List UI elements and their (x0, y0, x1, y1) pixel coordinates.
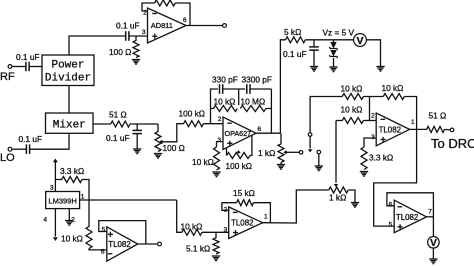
wire R9 to R10 (363, 96, 383, 98)
wire VR3 to ground (280, 163, 282, 165)
wire M1 to ground drop (366, 40, 380, 67)
label R1 value 100 ohm (109, 47, 131, 57)
wire switch right throw to ground (318, 154, 320, 166)
svg-text:TL082: TL082 (231, 218, 253, 227)
svg-text:100 kΩ: 100 kΩ (179, 109, 206, 119)
capacitor C2 0.1uF (126, 31, 129, 41)
svg-text:3: 3 (50, 185, 54, 192)
ground below switch (315, 166, 323, 171)
label RF (0, 71, 15, 83)
ground below VR4 (351, 203, 359, 208)
svg-text:3: 3 (217, 137, 221, 144)
op-amp U1 AD811 triangle (148, 8, 187, 43)
svg-text:1 kΩ: 1 kΩ (258, 148, 275, 158)
label U2 minus input (227, 122, 232, 124)
label Mixer (53, 119, 86, 131)
potentiometer VR3 1 kohm (278, 133, 284, 162)
label U4 name TL082 (396, 213, 418, 222)
svg-text:6: 6 (258, 126, 262, 133)
label U5 plus input (108, 232, 113, 237)
wire R15 to U5 pin6 (89, 249, 107, 250)
label VR2 value 100 kohm (226, 161, 253, 171)
wire switch pole (309, 136, 311, 148)
label R9 value 10 kohm (341, 84, 363, 94)
label R5 value 10 kohm (214, 97, 236, 107)
label R7 value 10 kohm (192, 157, 214, 167)
svg-text:Mixer: Mixer (53, 119, 86, 131)
svg-text:TL082: TL082 (108, 240, 130, 249)
wire U6 pin2 to feedback (222, 203, 237, 211)
label U1 plus input (152, 34, 157, 39)
wire feedback right vertical (270, 89, 272, 133)
resistor R2 feedback (155, 0, 176, 6)
node RF input terminal (8, 65, 12, 69)
pin 2 of U6 (224, 206, 228, 213)
ground below C4 (133, 149, 141, 154)
svg-text:To DRO: To DRO (431, 136, 474, 151)
svg-text:3.3 kΩ: 3.3 kΩ (369, 153, 393, 163)
svg-text:5 kΩ: 5 kΩ (284, 27, 301, 37)
wire U4 output (427, 216, 434, 218)
wire LM399H pin4 down (54, 209, 56, 237)
svg-text:TL082: TL082 (396, 213, 418, 222)
wire U2 pin2 node up (211, 89, 218, 124)
label U6 plus input (233, 230, 238, 235)
wire U5 pin5 feedback (99, 221, 146, 244)
pin 3 of U2 (217, 137, 221, 144)
label U4 minus input (398, 206, 403, 208)
wire U4 pin6 feedback (387, 193, 434, 237)
wire C2 to AD811 pin3 (129, 35, 148, 37)
node U1 output terminal (223, 24, 227, 28)
node switch throw right (317, 150, 321, 154)
wire Power Divider to Mixer (68, 86, 70, 114)
svg-text:5: 5 (389, 222, 393, 229)
zener diode D1 (329, 42, 338, 50)
svg-text:V: V (430, 238, 437, 249)
pin 5 of U4 (389, 222, 393, 229)
wire pin1 rail (80, 199, 177, 201)
svg-text:2: 2 (371, 113, 375, 120)
wire C5 to C6 (223, 88, 246, 90)
label R16 value 10 kohm (181, 222, 203, 232)
block Power Divider (42, 55, 94, 86)
wire offset pot right stub (250, 135, 252, 156)
wire U2 output (256, 132, 280, 134)
op-amp U5 TL082 triangle (107, 227, 138, 261)
svg-text:10 kΩ: 10 kΩ (61, 234, 83, 244)
capacitor C1 0.1uF (26, 62, 29, 71)
wire R11 to U3 pin2 (363, 120, 376, 122)
wire R16 to U6 pin3 (202, 231, 229, 233)
label C6 value 3300 pF (242, 75, 272, 85)
wire C4 to ground (136, 134, 138, 149)
resistor R13 51 ohm (427, 126, 445, 132)
svg-text:100 kΩ: 100 kΩ (226, 161, 253, 171)
label C7 value 0.1 uF (283, 49, 307, 59)
label R8 value 5 kohm (284, 27, 301, 37)
pin 2 of U2 (218, 116, 222, 123)
wire feedback to U1 output (175, 3, 190, 26)
label VR3 value 1 kohm (258, 148, 275, 158)
resistor R14 3.3 kohm (55, 177, 82, 183)
voltmeter M2 circle (428, 237, 440, 249)
capacitor C7 0.1uF (309, 40, 319, 50)
wiper arrow of VR3 (283, 150, 286, 155)
ground below M1 (376, 67, 384, 72)
wire VR3 wiper to switch throw (285, 151, 300, 153)
ground below M2 (429, 259, 437, 264)
svg-text:Vz = 5 V: Vz = 5 V (323, 28, 355, 38)
label U3 plus input (381, 137, 386, 142)
wire U3 pin3 (364, 138, 376, 147)
ground below R17 (212, 256, 220, 261)
node LO input terminal (8, 147, 12, 151)
label R6 value 10 Mohm (241, 97, 266, 107)
node U5 output terminal (158, 242, 162, 246)
resistor R1 100 ohm (133, 36, 139, 58)
svg-text:100 Ω: 100 Ω (163, 143, 185, 153)
svg-text:0.1 uF: 0.1 uF (283, 49, 307, 59)
svg-text:RF: RF (0, 71, 15, 83)
resistor R18 15 kohm (237, 200, 254, 206)
wiper arrow of VR2 (236, 150, 241, 153)
wire C6 to right vertical (250, 88, 271, 90)
pin 1 of U3 (411, 119, 415, 126)
label C1 value 0.1 uF (16, 52, 40, 62)
wire zener to ground (333, 58, 335, 67)
ground below R1 (132, 60, 140, 65)
svg-text:1: 1 (411, 119, 415, 126)
label U4 plus input (398, 224, 403, 229)
svg-text:2: 2 (218, 116, 222, 123)
label LO (0, 152, 15, 164)
node To DRO terminal (450, 128, 454, 132)
switch pole arrow (308, 149, 313, 152)
svg-text:1: 1 (264, 213, 268, 220)
resistor R9 10 kohm (342, 94, 363, 100)
svg-text:0.1 uF: 0.1 uF (116, 21, 140, 31)
capacitor C3 0.1uF (26, 144, 29, 154)
resistor R8 5 kohm (286, 37, 306, 43)
zener diode D2 (329, 50, 338, 58)
wire LO terminal to C3 (12, 148, 27, 150)
svg-text:100 Ω: 100 Ω (109, 47, 131, 57)
wire VR4 right to ground (348, 190, 355, 203)
potentiometer VR4 1 kohm (329, 187, 349, 193)
resistor R10 10 kohm feedback (383, 94, 404, 100)
wire VR1 wiper to R4 (161, 124, 184, 142)
label U5 minus input (108, 253, 113, 255)
label Power (51, 60, 84, 72)
label C3 value 0.1 uF (19, 134, 43, 144)
label U1 minus input (152, 13, 157, 15)
ground below LM399H pin2 (65, 221, 73, 226)
svg-text:0.1 uF: 0.1 uF (106, 133, 130, 143)
voltmeter M1 circle (354, 34, 367, 47)
wire vertical to VR4 wiper (335, 121, 337, 183)
svg-text:5.1 kΩ: 5.1 kΩ (186, 244, 210, 254)
svg-text:4: 4 (43, 217, 47, 224)
svg-text:OPA627: OPA627 (225, 129, 252, 138)
wire U6 output to VR4 (263, 190, 329, 223)
label R4 value 100 kohm (179, 109, 206, 119)
op-amp U6 TL082 triangle (229, 207, 263, 239)
svg-text:TL082: TL082 (379, 125, 401, 134)
svg-text:0.1 uF: 0.1 uF (19, 134, 43, 144)
svg-text:3300 pF: 3300 pF (242, 75, 272, 85)
svg-text:Divider: Divider (45, 73, 91, 85)
pin 4 of LM399H (43, 217, 47, 224)
resistor R17 5.1 kohm (213, 232, 219, 254)
wire C1 to Power Divider (29, 66, 42, 68)
svg-text:V: V (356, 35, 363, 47)
label R12 value 3.3 kohm (369, 153, 393, 163)
label R14 value 3.3 kohm (60, 166, 84, 176)
svg-text:6: 6 (183, 17, 187, 24)
label U2 plus input (227, 141, 232, 146)
label U2 name OPA627 (225, 129, 252, 138)
wire U1 output (186, 25, 223, 27)
pin 2 of U1 (143, 10, 147, 17)
svg-text:5: 5 (102, 226, 106, 233)
wiper arrow of VR4 (334, 184, 338, 187)
svg-text:6: 6 (389, 201, 393, 208)
block Mixer (46, 113, 94, 133)
resistor R4 100 kohm (184, 121, 204, 127)
label M2 V (430, 238, 437, 249)
label R3 value 51 ohm (109, 110, 127, 120)
pin 6 of U5 (101, 248, 105, 255)
wire offset pot left stub (226, 148, 228, 156)
pin 2 of U3 (371, 113, 375, 120)
svg-text:LO: LO (0, 152, 15, 164)
wire R18 to U6 output (254, 203, 271, 223)
resistor R15 10 kohm (86, 200, 92, 249)
label U3 minus input (381, 118, 386, 120)
svg-text:10 kΩ: 10 kΩ (192, 157, 214, 167)
label R15 value 10 kohm (61, 234, 83, 244)
pin 6 of U4 (389, 201, 393, 208)
wire rail down to R16 (177, 200, 182, 232)
pin 7 of U4 (428, 208, 432, 215)
label C4 value 0.1 uF (106, 133, 130, 143)
label C5 value 330 pF (212, 75, 238, 85)
negative supply arrow (53, 237, 58, 241)
label LM399H (48, 197, 76, 206)
svg-text:3.3 kΩ: 3.3 kΩ (60, 166, 84, 176)
svg-text:10 kΩ: 10 kΩ (341, 84, 363, 94)
wire zener top stub (333, 40, 335, 42)
wire U5 output (138, 243, 158, 245)
label C2 value 0.1 uF (116, 21, 140, 31)
op-amp U3 TL082 triangle (376, 113, 409, 146)
svg-text:51 Ω: 51 Ω (429, 111, 447, 121)
capacitor C6 3300pF (247, 84, 250, 94)
wire C3 to Mixer (30, 133, 69, 149)
wire R9 junction down to U3 pin2 (369, 97, 371, 121)
ground below R7 (212, 172, 220, 177)
pin 1 of LM399H (81, 194, 85, 201)
potentiometer VR1 100 ohm (155, 124, 161, 152)
pin 3 of U1 (142, 29, 146, 36)
wiper arrow of VR1 (159, 140, 162, 145)
wire R10 to output junction (404, 97, 416, 130)
pin 6 of U2 (258, 126, 262, 133)
op-amp U4 TL082 triangle (394, 200, 426, 233)
label VR4 value 1 kohm (329, 193, 346, 203)
wire U2 pin3 (217, 142, 224, 147)
wire Mixer output (93, 123, 111, 125)
wire R8 to zener node (305, 39, 353, 41)
svg-text:6: 6 (101, 248, 105, 255)
svg-text:0.1 uF: 0.1 uF (16, 52, 40, 62)
wire R4 to U2 pin2 (204, 123, 224, 125)
svg-text:LM399H: LM399H (48, 197, 76, 206)
pin 1 of U6 (264, 213, 268, 220)
label U5 name TL082 (108, 240, 130, 249)
ground below VR1 (154, 154, 162, 159)
potentiometer VR2 100 kohm offset (227, 153, 251, 159)
resistor R7 10 kohm (214, 147, 220, 170)
svg-text:10 kΩ: 10 kΩ (341, 105, 363, 115)
svg-text:330 pF: 330 pF (212, 75, 238, 85)
wire R14 to pin1 rail (82, 180, 89, 201)
wire middle vertical of feedback (238, 89, 240, 105)
svg-text:10 kΩ: 10 kΩ (382, 83, 404, 93)
label M1 V (356, 35, 363, 47)
pin 3 of LM399H (50, 185, 54, 192)
label U1 name AD811 (151, 21, 173, 30)
capacitor C5 330pF (220, 84, 223, 94)
label R11 value 10 kohm (341, 105, 363, 115)
wire junction down to U4 pin5 path (374, 129, 417, 226)
wire Power Divider to AD811 input (69, 36, 126, 55)
svg-text:15 kΩ: 15 kΩ (233, 188, 255, 198)
wire U1 pin2 to feedback (142, 3, 155, 11)
resistor R6 10 Mohm (240, 106, 271, 112)
label Divider (45, 73, 91, 85)
block LM399H (46, 192, 80, 209)
svg-text:3: 3 (142, 29, 146, 36)
pin 3 of U6 (224, 226, 228, 233)
label zener Vz = 5 V (323, 28, 355, 38)
resistor R12 3.3 kohm (361, 147, 367, 170)
pin 6 of U1 (183, 17, 187, 24)
label R10 value 10 kohm (382, 83, 404, 93)
svg-text:AD811: AD811 (151, 21, 173, 30)
ground below R12 (360, 172, 368, 177)
label U3 name TL082 (379, 125, 401, 134)
wire LM399H pin2 to ground (68, 209, 70, 221)
wire C7 to ground (313, 50, 315, 66)
op-amp U2 OPA627 triangle (223, 117, 256, 150)
svg-text:1 kΩ: 1 kΩ (329, 193, 346, 203)
wire R13 to DRO terminal (445, 128, 451, 131)
svg-text:10 kΩ: 10 kΩ (214, 97, 236, 107)
wire R3 to node A (130, 123, 158, 125)
pin 3 of U3 (371, 134, 375, 141)
label R18 value 15 kohm (233, 188, 255, 198)
label R17 value 5.1 kohm (186, 244, 210, 254)
wire U2 output up to 5k (280, 40, 285, 133)
svg-text:10 MΩ: 10 MΩ (241, 97, 266, 107)
label U6 name TL082 (231, 218, 253, 227)
svg-text:7: 7 (428, 208, 432, 215)
ground below VR3 (277, 165, 285, 170)
ground below C7 (310, 67, 318, 72)
label To DRO (431, 136, 474, 151)
label VR1 value 100 ohm (163, 143, 185, 153)
wire VR2 wiper stub (238, 151, 240, 153)
wire M2 to ground (432, 248, 434, 259)
label R13 value 51 ohm (429, 111, 447, 121)
wire switch common up to 10k (310, 97, 342, 133)
pin 5 of U5 (102, 226, 106, 233)
resistor R16 10 kohm (182, 229, 202, 235)
resistor R3 51 ohm (111, 121, 130, 127)
svg-text:Power: Power (51, 60, 84, 72)
resistor R5 10 kohm (211, 106, 238, 112)
wire U3 output (410, 128, 427, 130)
pin 2 of LM399H (71, 217, 75, 224)
capacitor C4 0.1uF (132, 124, 142, 134)
wire RF terminal to C1 (12, 66, 26, 68)
svg-text:51 Ω: 51 Ω (109, 110, 127, 120)
resistor R11 10 kohm (336, 118, 363, 124)
label U6 minus input (233, 211, 238, 213)
node switch throw left (299, 151, 303, 155)
ground below zener (329, 67, 337, 72)
node switch common (308, 133, 312, 137)
positive supply arrow (53, 159, 58, 163)
svg-text:3: 3 (224, 226, 228, 233)
wire supply arrow to LM399H pin3 (54, 162, 56, 192)
